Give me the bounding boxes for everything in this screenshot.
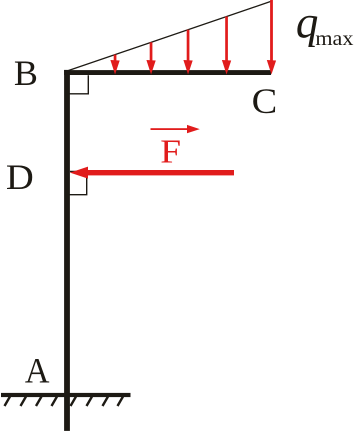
F vector overbar arrow (151, 125, 200, 133)
beam BC (horizontal member) (64, 70, 271, 75)
force F arrow (horizontal, pointing left at D) (70, 167, 234, 179)
member AB (vertical column) (64, 70, 70, 431)
right-angle square at D (68, 172, 86, 195)
ground hatch 5 (71, 397, 77, 407)
label q_max (296, 0, 354, 50)
distributed load arrow 4 (222, 17, 231, 75)
ground hatch 1 (5, 397, 11, 407)
svg-text:max: max (315, 28, 353, 50)
distributed load arrow 5 (at C, maximum) (267, 0, 276, 75)
svg-text:B: B (14, 53, 38, 93)
distributed load arrow 3 (183, 30, 192, 75)
ground hatch 2 (21, 397, 27, 407)
ground hatch 4 (52, 397, 58, 407)
distributed load arrow 2 (146, 42, 155, 74)
svg-text:A: A (25, 350, 50, 390)
fixed support ground line at A (1, 393, 131, 397)
distributed load arrow 1 (110, 55, 119, 75)
load envelope line (triangle hypotenuse) (69, 2, 271, 71)
svg-text:D: D (6, 157, 34, 197)
ground hatch 8 (118, 397, 124, 407)
svg-text:C: C (252, 81, 278, 121)
ground hatch 3 (36, 397, 42, 407)
ground hatch 6 (87, 397, 93, 407)
right-angle square at B (68, 75, 88, 94)
svg-text:F: F (160, 133, 181, 170)
ground hatch 7 (103, 397, 109, 407)
